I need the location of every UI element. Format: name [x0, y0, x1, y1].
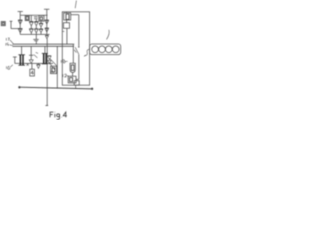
- mid rail 2: [13, 45, 75, 47]
- rectifier bottom rail: [20, 33, 49, 35]
- box B5 double: [51, 66, 57, 73]
- box C2 under rail: [39, 16, 44, 22]
- pointer from 19: [10, 44, 13, 47]
- label 18: [61, 60, 65, 63]
- diode column 2: [29, 15, 33, 34]
- lower rail: [15, 62, 53, 64]
- feed wire rail to lamp: [72, 44, 74, 63]
- label 11: [51, 71, 53, 74]
- label 19: [6, 43, 9, 46]
- stub box top to M1: [66, 12, 68, 13]
- diode column 3 under C2: [39, 21, 43, 34]
- terminal C with bar: [44, 9, 49, 15]
- terminal B with bar: [18, 12, 23, 16]
- switch contact dot: [78, 46, 79, 47]
- stub on box left edge: [62, 30, 64, 32]
- long vertical bus x=47.2: [46, 39, 48, 106]
- pointer from 18: [65, 60, 68, 62]
- hook tick: [84, 55, 86, 56]
- equals mark: [34, 17, 38, 19]
- connector lamp to M3: [72, 73, 74, 77]
- box C1 under rail: [25, 16, 29, 21]
- diode column 2b: [34, 19, 38, 34]
- left dot: [18, 86, 20, 88]
- mid rail 1: [13, 43, 75, 45]
- pointer from 16: [10, 65, 13, 67]
- loop vertical upper: [78, 15, 80, 47]
- tall vertical x=57.3: [56, 46, 58, 88]
- arrow diagonal b: [49, 63, 55, 71]
- module M1 double box: [64, 13, 71, 20]
- label 16: [7, 66, 10, 69]
- pointer diag above lower rail: [34, 55, 38, 58]
- wire M1 to loop: [71, 14, 79, 16]
- lamp L1 flask: [70, 63, 75, 72]
- transformer cluster 2: [42, 46, 48, 64]
- foot tick of bus: [45, 105, 48, 107]
- stub lower rail to B4: [31, 63, 33, 69]
- diode D7 column: [29, 46, 33, 63]
- loop vertical lower: [78, 54, 80, 79]
- module M3 double box: [68, 76, 76, 83]
- diode under bottom rail: [45, 35, 48, 38]
- diode column 1: [18, 15, 22, 34]
- wire M2 down to rail: [66, 28, 68, 44]
- diode column 4: [45, 15, 49, 34]
- hook pointer left of chain: [85, 49, 90, 56]
- pointer from 17: [10, 40, 13, 44]
- caption Fig. 4: [50, 112, 67, 120]
- notch box on bottom edge: [74, 81, 79, 86]
- roller 2: [99, 46, 106, 53]
- label 12: [63, 74, 67, 77]
- arrow diagonal a: [50, 59, 57, 66]
- rectifier top rail: [20, 14, 47, 16]
- cross mark left of box 4: [27, 63, 29, 65]
- roller 4: [112, 46, 119, 53]
- pointer tick: [36, 52, 38, 53]
- box B4 with numeral 4: [30, 69, 35, 76]
- right dot: [91, 88, 93, 90]
- pointer above box: [75, 1, 76, 9]
- label 17: [6, 38, 9, 41]
- diode stack D8: [48, 56, 52, 64]
- stub notch to bottom wire: [75, 85, 77, 88]
- module M2: [64, 23, 70, 29]
- wire terminal A to rectifier column: [11, 28, 20, 30]
- wire loop to M3: [76, 78, 79, 80]
- diode D9: [37, 63, 41, 68]
- chain housing pill: [90, 44, 121, 55]
- box S1 small double square far left: [1, 22, 5, 26]
- big box U1: [62, 12, 89, 85]
- switch tick: [74, 50, 76, 53]
- comma pointer top right: [107, 30, 110, 40]
- roller 1: [92, 46, 99, 53]
- switch blade: [75, 47, 79, 54]
- bottom wire: [19, 87, 93, 89]
- roller 3: [105, 46, 112, 53]
- pointer from 12: [67, 75, 69, 77]
- capacitor C3: [33, 34, 38, 44]
- terminal A with bar: [10, 21, 13, 28]
- transformer cluster 1: [18, 46, 25, 65]
- wire M1 to M2: [66, 20, 68, 23]
- terminal D on lower rail: [13, 57, 17, 63]
